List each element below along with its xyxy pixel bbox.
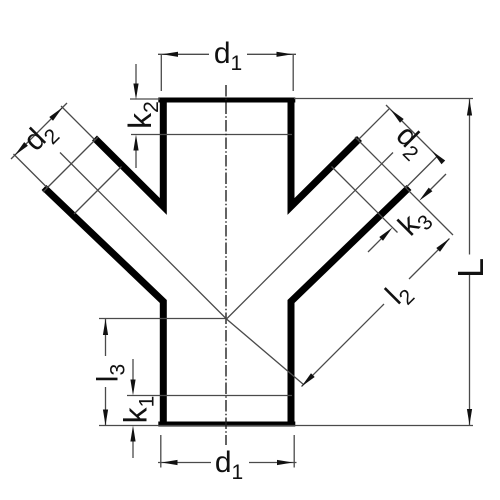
dimension d2 (left): upper arrow bbox=[49, 108, 62, 121]
pipe fitting main body: top port face bbox=[158, 98, 295, 103]
dimension k3: label bbox=[392, 200, 438, 246]
dimension L: top arrow bbox=[467, 100, 472, 116]
dimension k1: upper arrow with shaft bbox=[132, 359, 134, 384]
dimension k2: upper arrow with shaft bbox=[135, 64, 137, 88]
top socket depth line bbox=[131, 134, 292, 136]
dimension d2 (right): lower arrow bbox=[432, 151, 445, 164]
dimension d2 (left): dimension line bbox=[11, 103, 67, 159]
main pipe left wall lower + left branch lower wall bbox=[44, 188, 163, 427]
dimension d1 (bottom): dimension line bbox=[158, 462, 297, 464]
branch axes level extension line (l3 top reference) bbox=[99, 318, 227, 320]
dimension l3: dimension line bbox=[105, 319, 107, 425]
dimension l2: lower arrow bbox=[302, 373, 315, 386]
main vertical centerline (dash-dot) bbox=[225, 85, 227, 445]
dimension d1 (bottom): label bbox=[211, 446, 249, 484]
dimension d1 (top): extension lines bbox=[161, 54, 293, 91]
main pipe right wall upper + right branch upper wall bbox=[291, 98, 360, 207]
dimension d2 (right): label bbox=[386, 119, 433, 166]
dimension L: dimension line bbox=[469, 99, 471, 426]
main pipe left wall upper + left branch upper wall bbox=[95, 98, 164, 207]
dimension d1 (bottom): left arrow bbox=[162, 460, 178, 465]
dimension k3: lower arrow with shaft bbox=[368, 236, 384, 252]
dimension L: bottom arrow bbox=[467, 409, 472, 425]
dimension k1: label bbox=[118, 396, 159, 424]
left branch centerline (through center, extended to l2 arrow) bbox=[60, 153, 304, 385]
dimension d1 (top): label bbox=[209, 37, 247, 75]
svg-text:L: L bbox=[450, 258, 491, 278]
bottom socket depth line bbox=[127, 395, 292, 397]
dimension d1 (top): right arrow bbox=[277, 52, 293, 57]
dimension l3: label bbox=[92, 364, 130, 382]
pipe fitting main body: bottom port face bbox=[158, 422, 295, 427]
dimension k2: lower arrow with shaft bbox=[135, 146, 137, 168]
top face left extension line (k2 reference) bbox=[130, 98, 160, 100]
right branch socket depth line + k3 extension bbox=[332, 167, 398, 233]
dimension d1 (top): dimension line bbox=[158, 53, 296, 55]
dimension k1: lower arrow with shaft bbox=[132, 437, 134, 458]
right branch mouth face line + l2/k3 extension bbox=[355, 137, 453, 235]
bottom face extension line (L, l3, k1, d1 reference) bbox=[99, 425, 473, 427]
dimension l3: bottom arrow bbox=[103, 410, 108, 426]
dimension d1 (bottom): extension lines bbox=[161, 435, 294, 468]
dimension d1 (bottom): right arrow bbox=[277, 460, 293, 465]
main pipe right wall lower + right branch lower wall bbox=[291, 188, 409, 427]
right branch centerline bbox=[227, 153, 394, 320]
top face right extension line (L reference) bbox=[294, 98, 473, 100]
dimension d2 (right): dimension line bbox=[386, 105, 441, 160]
dimension l2: upper arrow bbox=[436, 239, 449, 252]
dimension d1 (top): left arrow bbox=[162, 52, 178, 57]
dimension d2 (right): upper arrow bbox=[391, 110, 404, 123]
dimension l2: label bbox=[379, 274, 419, 314]
dimension d2 (left): lower arrow bbox=[15, 142, 28, 155]
left branch socket depth line bbox=[74, 167, 122, 215]
dimension d2 (left): label bbox=[17, 114, 64, 161]
dimension k3: upper arrow with shaft bbox=[428, 174, 446, 192]
dimension L: label bbox=[450, 258, 491, 278]
dimension d2 (left): extension lines from mouth corners bbox=[14, 106, 96, 188]
dimension d2 (right): extension lines from mouth corners bbox=[358, 109, 437, 188]
left branch mouth face line bbox=[43, 137, 98, 192]
dimension k2: label bbox=[122, 101, 163, 129]
dimension l3: top arrow bbox=[103, 319, 108, 335]
dimension l2: dimension line bbox=[302, 239, 450, 387]
